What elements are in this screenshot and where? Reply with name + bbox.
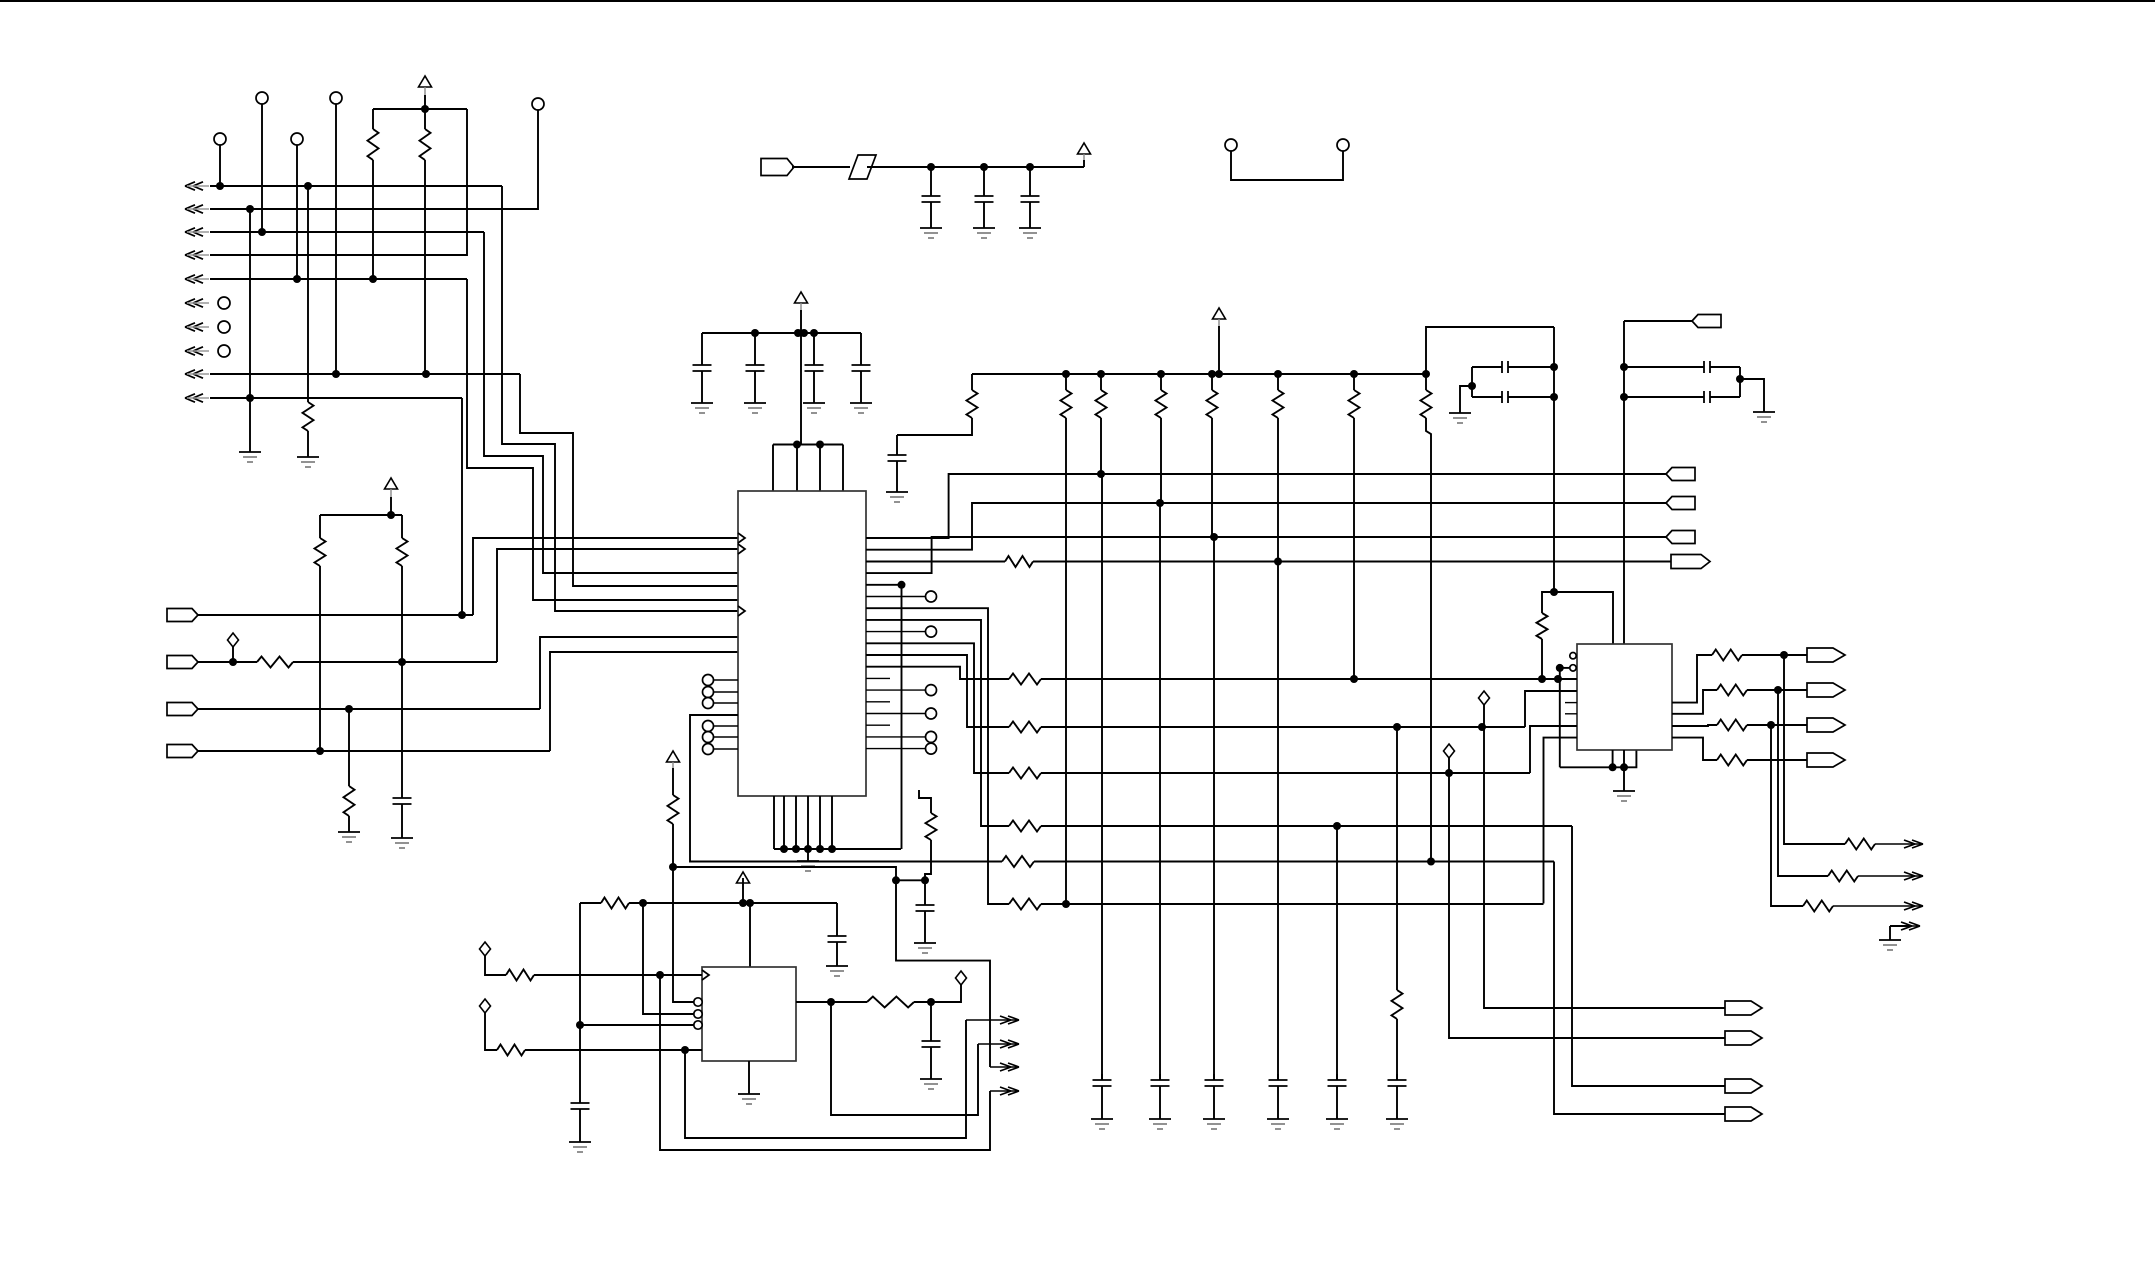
- resistor R31: [1712, 650, 1742, 661]
- wire 643 drop: [643, 903, 694, 1014]
- node P2/row374: [332, 370, 340, 378]
- arrow out B3: [1833, 902, 1923, 910]
- resistor R17: [1421, 390, 1432, 418]
- wire U3 left stub 667.9: [1569, 667, 1577, 669]
- wire v1426 tail: [1426, 418, 1431, 862]
- wire v1160 tail: [1160, 418, 1161, 1080]
- pin bubble U3 667.9: [1570, 665, 1576, 671]
- node xtal a: [1550, 363, 1558, 371]
- pin circle P5: [291, 133, 303, 145]
- pin bubble U2 1002: [694, 998, 702, 1006]
- node xtal left: [1468, 382, 1476, 390]
- node 925/880: [921, 876, 929, 884]
- wire line 867: [673, 867, 896, 880]
- wire 1484 drop: [1484, 727, 1725, 1008]
- wire row279 staircase to pin600: [467, 279, 738, 600]
- wire rail 515: [320, 514, 402, 516]
- arrow out A1: [966, 1016, 1019, 1024]
- node D1/row662: [229, 658, 237, 666]
- wire U3 bottom pin a: [1612, 750, 1614, 767]
- node 931/1002: [927, 998, 935, 1006]
- resistor R15: [1273, 390, 1284, 418]
- wire P2 down: [335, 104, 337, 374]
- wire A4 path: [660, 975, 990, 1150]
- ground G2: [297, 457, 319, 467]
- wire rail drop 1101: [1100, 374, 1102, 390]
- arrow stub row 351: [185, 347, 209, 355]
- wire row975: [534, 974, 702, 976]
- wire flag4 row: [198, 750, 550, 752]
- node rail334 d: [810, 329, 818, 337]
- connector flag F18: [1725, 1107, 1762, 1121]
- wire row826: [1041, 825, 1572, 827]
- wire D6 stem: [1448, 758, 1450, 773]
- capacitor C12: [1205, 1074, 1224, 1119]
- wire U1 left stub 680: [714, 679, 738, 681]
- node rail448 b: [816, 441, 824, 449]
- connector flag F3: [167, 703, 198, 716]
- wire R30 to row679: [1541, 639, 1543, 679]
- ground G21: [569, 1142, 591, 1152]
- wire R32 to flag: [1747, 689, 1807, 691]
- node P1/row232: [258, 228, 266, 236]
- connector flag F11: [1807, 648, 1845, 662]
- node bottom rail 796: [792, 845, 800, 853]
- wire U1 bottom rail: [774, 848, 901, 850]
- resistor R26: [601, 898, 629, 909]
- IC U2: [702, 967, 796, 1061]
- pin bubble U2 1025: [694, 1021, 702, 1029]
- wire flag2 to IC pin549: [497, 549, 738, 662]
- arrow row 186: [185, 182, 209, 190]
- pin bubble U2 1014: [694, 1010, 702, 1018]
- pin circle NC 748.6: [926, 743, 937, 754]
- pin circle NC 713.5: [926, 708, 937, 719]
- wire U1 bottom pin x820: [819, 796, 821, 849]
- top black border bar: [0, 0, 2155, 2]
- wire U3 pin737: [1544, 738, 1578, 904]
- ground G3: [391, 838, 413, 848]
- connector flag F13: [1807, 718, 1845, 732]
- wire IC1 top pin4: [842, 445, 844, 492]
- wire v1397 lower: [1396, 1019, 1398, 1080]
- wire flag3 row: [198, 708, 540, 710]
- node fuse net c: [1026, 163, 1034, 171]
- diamond D3: [480, 999, 491, 1013]
- wire flag2 to diamond node: [198, 661, 257, 663]
- node bottom rail 808: [804, 845, 812, 853]
- node row662/v402: [398, 658, 406, 666]
- wire row 279: [210, 278, 467, 280]
- wire row 186: [210, 185, 502, 187]
- ground G9: [744, 403, 766, 413]
- wire R3 to ground: [307, 431, 309, 457]
- node v1431/row861: [1427, 858, 1435, 866]
- wire U1 bottom pin x784: [783, 796, 785, 849]
- wire row 374: [210, 373, 520, 375]
- wire v349 to resistor: [348, 709, 350, 786]
- capacitor C7: [805, 333, 824, 403]
- arrow out A4: [990, 1087, 1019, 1095]
- connector flag F7: [1666, 497, 1695, 510]
- wire 880 link: [896, 879, 925, 881]
- wire U1 left stub 726: [714, 725, 738, 727]
- capacitor C17: [571, 1097, 590, 1142]
- node 896/880: [892, 876, 900, 884]
- IC U1: [738, 491, 866, 796]
- wire R2 bottom to row374: [424, 160, 426, 374]
- wire v1354 tail: [1353, 418, 1355, 679]
- wire R6 down to row662: [401, 566, 403, 662]
- node rail334 b: [794, 329, 802, 337]
- node x2 b: [1620, 393, 1628, 401]
- node row679/1542: [1538, 675, 1546, 683]
- wire rail drop 1212: [1211, 374, 1213, 390]
- wire row374 staircase to pin586: [520, 374, 738, 586]
- ground G10: [803, 403, 825, 413]
- wire U3 nc stub a: [1565, 702, 1577, 704]
- power symbol VCC top-left: [419, 76, 432, 95]
- node P5/row279: [293, 275, 301, 283]
- pin circle J1a: [1225, 139, 1237, 151]
- connector flag F6: [1666, 468, 1695, 481]
- wire row679: [1041, 678, 1577, 680]
- wire 673 lower: [673, 824, 694, 1002]
- ground G23: [920, 1079, 942, 1089]
- resistor R28: [497, 1045, 525, 1056]
- wire vcc stem: [390, 497, 392, 515]
- node xtal b: [1550, 393, 1558, 401]
- pin circle P1: [256, 92, 268, 104]
- wire U3 nc stub b: [1565, 713, 1577, 715]
- node bottom rail 820: [816, 845, 824, 853]
- node 673/867: [669, 863, 677, 871]
- wire pin11 to row727: [866, 655, 1009, 727]
- diamond D4: [956, 971, 967, 985]
- wire U2 bottom: [748, 1061, 750, 1094]
- wire rail 374: [972, 373, 1426, 375]
- node 831/1002: [827, 998, 835, 1006]
- power symbol VCC rail374: [1213, 308, 1226, 328]
- wire pin7 to row904: [866, 608, 1009, 904]
- wire R7 to ground: [348, 816, 350, 832]
- wire v308 to resistor: [307, 186, 309, 402]
- connector flag F1: [167, 609, 198, 622]
- diamond D1: [228, 633, 239, 647]
- wire 1560 drop to gnd rail: [1559, 668, 1561, 767]
- wire U3 bottom pin b: [1623, 750, 1625, 767]
- wire 1784 drop: [1784, 655, 1845, 844]
- wire D2 stem: [485, 956, 506, 975]
- capacitor C18: [922, 1035, 941, 1079]
- node row826/v1337: [1333, 822, 1341, 830]
- node row751/v320: [316, 747, 324, 755]
- wire v1397 upper: [1396, 727, 1398, 990]
- node pin581: [898, 581, 906, 589]
- resistor R33: [1717, 720, 1747, 731]
- wire flag1 to IC pin538: [473, 538, 738, 615]
- arrow row 209: [185, 205, 209, 213]
- wire pin2 to row503: [866, 503, 1666, 550]
- wire U1 right stub 678.4: [866, 677, 890, 679]
- wire vcc stem 374: [1218, 326, 1220, 374]
- pin circle NC 596.5: [926, 591, 937, 602]
- resistor R9: [1005, 556, 1033, 567]
- resistor R18: [1392, 990, 1403, 1019]
- wire row186 staircase to pin611: [502, 186, 738, 611]
- connector flag F10: [1692, 315, 1721, 328]
- wire pin4 to row537: [866, 537, 1666, 573]
- wire U2 top feed: [749, 903, 751, 967]
- node row562/v1278: [1274, 558, 1282, 566]
- node row209/v250: [246, 205, 254, 213]
- wire rail drop 1426: [1425, 374, 1427, 390]
- wire U1 right stub 725.2: [866, 724, 890, 726]
- ground G14: [1091, 1119, 1113, 1129]
- node rail903 b: [746, 899, 754, 907]
- arrow out B1: [1875, 840, 1923, 848]
- arrow out B2: [1858, 872, 1923, 880]
- wire U1 pin581 stub: [866, 584, 902, 586]
- wire row562: [1033, 561, 1671, 563]
- resistor R36: [1828, 871, 1858, 882]
- resistor R13: [1156, 390, 1167, 418]
- wire row232 staircase to pin573: [484, 232, 738, 573]
- ground G25: [1753, 412, 1775, 422]
- wire U1 right stub 701.8: [866, 701, 890, 703]
- wire U3 out2: [1672, 690, 1717, 714]
- wire row1050: [525, 1049, 702, 1051]
- wire row773: [1041, 772, 1530, 774]
- wire 673 upper: [672, 768, 674, 795]
- wire U1 bottom pin x832: [831, 796, 833, 849]
- wire R34 to flag: [1747, 759, 1807, 761]
- connector flag F12: [1807, 683, 1845, 697]
- connector flag F8: [1666, 531, 1695, 544]
- wire R1 bottom to row 279: [372, 160, 374, 279]
- wire R33 to flag: [1747, 724, 1807, 726]
- wire R10 tail: [897, 418, 972, 435]
- node 1784/655: [1780, 651, 1788, 659]
- resistor R19: [1009, 674, 1041, 685]
- node R1/row279: [369, 275, 377, 283]
- wire row679 into U3: [1542, 678, 1577, 680]
- wire v1278 tail: [1277, 418, 1279, 1080]
- wire rail 903: [629, 902, 837, 904]
- wire P5 down: [296, 145, 298, 279]
- wire rail right end down to row 254: [210, 109, 467, 255]
- wire nc stub 596.5: [866, 596, 925, 598]
- pin bubble U1 749: [703, 744, 714, 755]
- wire U3 pin691: [1525, 691, 1577, 727]
- wire U1 left stub 703: [714, 702, 738, 704]
- resistor R16: [1349, 390, 1360, 418]
- wire xtal res branch: [1542, 592, 1554, 613]
- wire bottom rail riser: [901, 585, 903, 849]
- node v1354/row679: [1350, 675, 1358, 683]
- node row186/v308: [304, 182, 312, 190]
- node x2 a: [1620, 363, 1628, 371]
- wire rail end down: [971, 374, 973, 390]
- wire x2 right join: [1739, 367, 1741, 397]
- pin circle P4: [214, 133, 226, 145]
- wire xtal left join: [1471, 367, 1473, 397]
- wire 880 to arrow3 riser: [896, 880, 990, 1067]
- wire U1 left stub 749: [714, 748, 738, 750]
- resistor R10: [967, 390, 978, 418]
- arrow row 279: [185, 275, 209, 283]
- pin circle stub 303: [218, 297, 230, 309]
- node 1560/668: [1556, 664, 1564, 672]
- capacitor C16: [828, 930, 847, 966]
- capacitor C2: [922, 167, 941, 228]
- resistor R7: [344, 786, 355, 816]
- wire D3 stem: [485, 1013, 497, 1050]
- node fuse net b: [980, 163, 988, 171]
- wire resistor R1 top lead: [372, 109, 374, 129]
- wire rail 448: [773, 444, 843, 446]
- wire rail drop 1278: [1277, 374, 1279, 390]
- wire nc stub 713.5: [866, 713, 925, 715]
- wire row 398: [210, 397, 462, 399]
- wire jumper: [1231, 151, 1343, 180]
- node row503/v1160: [1156, 499, 1164, 507]
- wire R8 top jog: [919, 790, 931, 813]
- node flag1/v462: [458, 611, 466, 619]
- capacitor C22: [1624, 391, 1740, 403]
- ground G26: [1613, 767, 1635, 801]
- wire 580 to cap: [579, 1025, 581, 1097]
- capacitor C13: [1269, 1074, 1288, 1119]
- resistor R8: [926, 813, 937, 840]
- wire U1 bottom pin x774: [773, 796, 775, 849]
- IC U3: [1577, 644, 1672, 750]
- capacitor C15: [1388, 1074, 1407, 1119]
- wire v1066 tail: [1065, 418, 1067, 904]
- node rail374 x1354: [1350, 370, 1358, 378]
- ground G16: [1203, 1119, 1225, 1129]
- wire x2 gnd lead: [1740, 379, 1764, 412]
- connector flag F2: [167, 656, 198, 669]
- connector flag F14: [1807, 753, 1845, 767]
- ground G5: [920, 228, 942, 238]
- capacitor C6: [746, 333, 765, 403]
- node rail374 x1278: [1274, 370, 1282, 378]
- wire fuse right: [867, 166, 1084, 168]
- wire D5 stem: [1483, 705, 1485, 727]
- clock pin arrow U1-538: [738, 533, 745, 543]
- wire v462 up to row398: [461, 398, 463, 615]
- wire U1 pin715 riser: [690, 715, 1002, 862]
- wire IC1 top pin3: [819, 445, 821, 492]
- wire rail 334: [702, 332, 861, 334]
- wire R8 bottom: [925, 840, 931, 880]
- capacitor C4: [1021, 167, 1040, 228]
- wire rail374 up right: [1426, 327, 1554, 374]
- resistor R21: [1009, 768, 1041, 779]
- node rail515: [387, 511, 395, 519]
- ground G19: [1386, 1119, 1408, 1129]
- capacitor C19: [1472, 361, 1554, 373]
- wire 580 riser: [579, 903, 581, 1025]
- node 1554/592: [1550, 588, 1558, 596]
- wire v1554: [1553, 327, 1555, 592]
- pin bubble U1 737: [703, 732, 714, 743]
- node U3 gnd a: [1609, 763, 1617, 771]
- wire U3 668 link: [1560, 667, 1569, 669]
- wire vcc to rail334: [800, 310, 802, 333]
- wire flag1 row: [198, 614, 473, 616]
- capacitor C8: [852, 333, 871, 403]
- capacitor C23: [916, 880, 935, 943]
- wire IC1 top pin1: [772, 445, 774, 492]
- wire U2 out: [796, 1001, 867, 1003]
- wire row662: [293, 661, 497, 663]
- resistor R35: [1845, 839, 1875, 850]
- connector flag F5: [761, 159, 794, 176]
- wire 1778 drop: [1778, 690, 1828, 876]
- node row727/diamond: [1478, 723, 1486, 731]
- resistor R4: [257, 657, 293, 668]
- pin circle NC 631.6: [926, 626, 937, 637]
- node rail374 x1161: [1157, 370, 1165, 378]
- node row474/v1102: [1097, 470, 1105, 478]
- wire v1624 top: [1623, 321, 1625, 644]
- wire flag3 to IC pin637: [540, 637, 738, 709]
- ground G8: [691, 403, 713, 413]
- node row1050/685: [681, 1046, 689, 1054]
- capacitor C3: [975, 167, 994, 228]
- resistor R11: [1061, 390, 1072, 418]
- wire A2 path: [831, 1002, 978, 1115]
- wire gnd arrow lead: [1890, 925, 1908, 927]
- node x2 right: [1736, 375, 1744, 383]
- arrow row 255: [185, 251, 209, 259]
- node R2/row374: [422, 370, 430, 378]
- diamond D6: [1444, 744, 1455, 758]
- wire flag xtal: [1624, 320, 1692, 322]
- wire P1 down: [261, 104, 263, 232]
- wire IC1 top pin2: [796, 445, 798, 492]
- pin circle NC 690.1: [926, 685, 937, 696]
- power symbol VCC IC1: [795, 292, 808, 312]
- wire flag4 to IC pin652: [550, 652, 738, 751]
- resistor R6: [397, 538, 408, 566]
- wire v402 down to cap: [401, 662, 403, 792]
- wire vcc stem u2: [742, 878, 744, 903]
- wire 1771 drop: [1771, 725, 1803, 906]
- wire supply drop: [800, 333, 802, 445]
- wire vcc stem tc: [1083, 160, 1085, 167]
- arrow stub row 327: [185, 323, 209, 331]
- node rail374 triangle: [1215, 370, 1223, 378]
- clock pin arrow U1-611: [738, 606, 745, 616]
- arrow row 232: [185, 228, 209, 236]
- wire pin3 row562: [866, 561, 1005, 563]
- wire pin10 to row773: [866, 643, 1009, 773]
- wire fuse left: [792, 166, 850, 168]
- ground G17: [1267, 1119, 1289, 1129]
- wire U3 out1: [1672, 655, 1712, 703]
- wire nc stub 736.9: [866, 736, 925, 738]
- wire U3 pin726: [1530, 726, 1577, 773]
- pin bubble U1 726: [703, 721, 714, 732]
- wire nc stub 690.1: [866, 689, 925, 691]
- node row975/660: [656, 971, 664, 979]
- wire rail 109: [373, 108, 467, 110]
- wire v250 to ground: [249, 398, 251, 452]
- wire 1554 to U3: [1554, 592, 1613, 644]
